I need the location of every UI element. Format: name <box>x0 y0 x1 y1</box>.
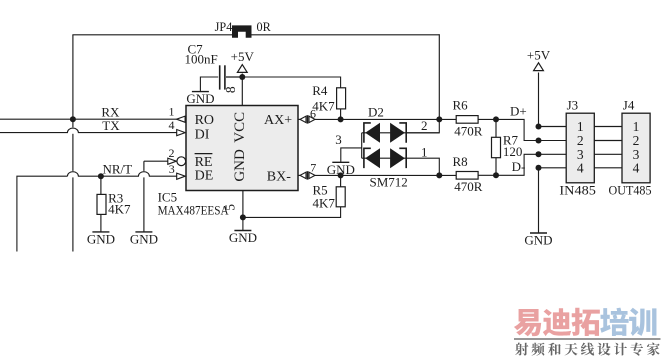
node R4 to AX+ junction <box>338 116 344 122</box>
svg-text:D2: D2 <box>368 105 384 120</box>
wire R5 top from BX- junction <box>340 175 342 186</box>
pin 3 DE arrow <box>169 162 185 179</box>
wire R5 bottom to IC ground net <box>243 207 341 218</box>
wire D2 row2 to BX- net (pin 1 of D2) <box>406 158 439 175</box>
diode array D2 SM712 <box>364 123 406 168</box>
svg-text:D-: D- <box>512 159 526 174</box>
svg-text:J4: J4 <box>623 97 635 112</box>
wire top rail left segment to JP4 <box>72 34 233 36</box>
svg-text:SM712: SM712 <box>370 175 408 190</box>
svg-text:BX-: BX- <box>267 170 291 185</box>
node R5 to BX- junction <box>338 172 344 178</box>
svg-text:TX: TX <box>102 118 120 133</box>
svg-text:1: 1 <box>169 105 175 119</box>
node +5V to J3 pin1 <box>536 124 542 130</box>
node GND to J3 pin4 <box>536 165 542 171</box>
ground for D2 pin 3 <box>327 162 355 177</box>
net label RX <box>101 104 120 119</box>
capacitor C7 100nF <box>185 42 225 90</box>
svg-text:GND: GND <box>186 91 214 106</box>
wire RE drop down to ground (crosses NR/T with hop) <box>143 161 145 171</box>
pin 8 VCC number (rotated) <box>223 86 238 93</box>
svg-text:GND: GND <box>327 162 355 177</box>
svg-text:J3: J3 <box>567 97 579 112</box>
ground for IC5 pin 5 <box>229 217 257 245</box>
wire R4 bottom to AX+ net <box>340 109 342 120</box>
svg-text:GND: GND <box>87 231 115 246</box>
resistor R8 body <box>456 172 478 180</box>
wire D- jog to J3 pin 3 <box>496 154 566 175</box>
pin 2 RE arrow and bubble <box>168 146 186 165</box>
wire NR/T left stub corner down to open end <box>17 176 68 251</box>
svg-text:3: 3 <box>169 162 175 176</box>
connector J4 OUT485 <box>609 97 652 197</box>
svg-text:100nF: 100nF <box>185 52 218 67</box>
svg-text:VCC: VCC <box>232 112 248 143</box>
resistor R7 body <box>492 137 501 157</box>
svg-text:R4: R4 <box>312 83 328 98</box>
svg-text:8: 8 <box>223 86 238 93</box>
svg-text:2: 2 <box>633 133 640 148</box>
pin 1 RO arrow <box>169 105 186 123</box>
wire D+ jog to J3 pin 2 <box>496 119 566 140</box>
node D2 row2 to BX- junction <box>436 172 442 178</box>
resistor R4 body <box>337 88 346 109</box>
wire R7 bottom connection <box>495 158 497 176</box>
label R7 120 <box>503 132 523 159</box>
svg-text:470R: 470R <box>454 124 483 139</box>
svg-text:2: 2 <box>421 118 428 133</box>
wire R7 top connection <box>495 119 497 137</box>
power +5V at J3 <box>527 47 551 70</box>
watermark logo yiditraining <box>514 308 661 356</box>
svg-text:1: 1 <box>633 119 640 134</box>
pin 5 GND number (rotated) <box>222 204 237 211</box>
net label NR/T <box>103 162 133 177</box>
svg-text:4: 4 <box>577 161 584 176</box>
wire J3 to J4 row 4 <box>594 167 622 169</box>
node D+ junction R6/R7 <box>493 116 499 122</box>
label IC5 <box>158 190 178 205</box>
node +5V / C7 / VCC junction <box>239 74 245 80</box>
wire vertical bus below RX junction down <box>72 119 74 127</box>
net label D+ <box>510 104 527 119</box>
label MAX487EESA <box>158 203 230 218</box>
resistor R5 body <box>336 187 345 207</box>
net label TX <box>102 118 120 133</box>
label D2 pin 2 <box>421 118 428 133</box>
wire vertical bus continues below NR/T to open end <box>72 177 74 251</box>
label SM712 <box>370 175 408 190</box>
svg-text:D+: D+ <box>510 104 527 119</box>
wire J3 pin 4 feed <box>539 167 567 169</box>
ground for R3 <box>87 231 115 246</box>
label D2 pin 1 <box>421 145 428 160</box>
wire TX from left edge to DI pin (hop over vertical bus) <box>0 128 177 133</box>
wire R3 top from NR/T junction <box>100 176 102 194</box>
wire J3 pin 1 feed <box>539 126 567 128</box>
svg-text:1: 1 <box>577 119 584 134</box>
wire IC GND pin 5 drop <box>242 191 244 218</box>
svg-text:3: 3 <box>335 132 342 147</box>
label D2 <box>368 105 384 120</box>
ground for C7 <box>186 91 214 106</box>
net label D- <box>512 159 526 174</box>
wire J3 to J4 row 2 <box>594 140 622 142</box>
wire J3 to J4 row 1 <box>594 126 622 128</box>
node D+ to J3 pin2 <box>536 138 542 144</box>
wire +5V node right to R4 top <box>242 77 340 88</box>
svg-text:GND: GND <box>524 233 552 248</box>
svg-text:R8: R8 <box>453 154 468 169</box>
wire D2 pin 3 stub to ground <box>341 148 362 162</box>
label R5 4K7 <box>313 183 336 211</box>
svg-text:RO: RO <box>195 113 214 128</box>
wire C7 right plate to +5V node <box>226 76 242 78</box>
svg-text:2: 2 <box>577 133 584 148</box>
svg-text:DI: DI <box>195 127 210 142</box>
node NR/T junction with R3 <box>98 173 104 179</box>
node IC ground pin junction <box>240 214 246 220</box>
wire R8 right to D- node <box>478 174 496 176</box>
ground for RE pin <box>130 231 158 246</box>
svg-text:AX+: AX+ <box>264 113 292 128</box>
wire J3 to J4 row 3 <box>594 153 622 155</box>
svg-text:JP4: JP4 <box>215 20 233 34</box>
svg-text:6: 6 <box>310 107 316 121</box>
svg-text:+5V: +5V <box>527 47 551 62</box>
connector J3 IN485 <box>559 97 596 197</box>
wire AX+ stub IC edge to arrow <box>298 118 300 120</box>
wire +5V right drop to J3 pin 1 <box>538 73 540 127</box>
svg-text:+5V: +5V <box>231 49 255 64</box>
svg-text:1: 1 <box>421 145 428 160</box>
wire NR/T from corner to DE pin (hops over bus and RE drop) <box>67 172 177 177</box>
label R4 4K7 <box>312 83 335 113</box>
svg-text:4K7: 4K7 <box>313 195 336 210</box>
pin 4 DI arrow <box>169 118 186 136</box>
svg-text:4K7: 4K7 <box>108 201 131 216</box>
svg-text:GND: GND <box>229 230 257 245</box>
wire C7 left plate to ground corner <box>200 77 218 92</box>
node RX junction with vertical bus <box>70 116 76 122</box>
label D2 pin 3 <box>335 132 342 147</box>
svg-text:120: 120 <box>503 144 523 159</box>
node D- junction R8/R7 <box>493 172 499 178</box>
wire R3 bottom to ground <box>100 214 102 232</box>
svg-text:DE: DE <box>195 168 214 183</box>
svg-text:GND: GND <box>130 231 158 246</box>
wire AX+ pin net from IC to R6 <box>315 118 456 120</box>
svg-text:OUT485: OUT485 <box>609 182 652 197</box>
wire D2 row1 centre line <box>362 132 440 134</box>
op-amp IC5 MAX487EESA body <box>186 106 298 191</box>
power +5V at IC VCC <box>231 49 255 72</box>
svg-text:0R: 0R <box>257 20 272 34</box>
wire top rail right segment from JP4 to right drop <box>252 34 440 36</box>
svg-text:NR/T: NR/T <box>103 162 133 177</box>
label R8 470R <box>453 154 483 194</box>
svg-text:IN485: IN485 <box>559 182 596 197</box>
ground right for J3 pin 4 <box>524 233 552 248</box>
wire RX from left edge to RO pin <box>0 118 177 120</box>
resistor R6 body <box>456 116 478 124</box>
wire +5V node down to VCC pin 8 <box>241 77 243 106</box>
pin 7 BX- arrow <box>300 160 316 179</box>
wire D2 row2 centre line <box>362 157 407 159</box>
svg-text:4: 4 <box>169 118 175 132</box>
svg-text:MAX487EESA: MAX487EESA <box>158 203 230 218</box>
svg-text:R6: R6 <box>453 97 469 112</box>
wire RE pin to corner <box>144 160 168 162</box>
wire right drop from top rail down to AX+ net <box>438 34 440 119</box>
wire R6 right to D+ node <box>478 118 496 120</box>
svg-text:5: 5 <box>222 204 237 211</box>
jumper JP4 (0R link) <box>215 20 272 38</box>
node D- to J3 pin3 <box>536 151 542 157</box>
wire RE drop lower part <box>143 177 145 232</box>
svg-text:4: 4 <box>633 161 640 176</box>
wire J3 pin 4 to ground drop <box>538 168 540 233</box>
node top-rail drop to AX+ junction <box>436 116 442 122</box>
wire BX- pin net from IC to R8 <box>315 174 456 176</box>
resistor R3 body <box>97 194 106 214</box>
svg-text:470R: 470R <box>454 179 483 194</box>
wire D2 common left vertical <box>361 133 363 158</box>
wire vertical bus between TX and NR/T hops <box>72 134 74 171</box>
label R6 470R <box>453 97 483 138</box>
wire BX- stub IC edge to arrow <box>298 174 300 176</box>
pin 6 AX+ arrow <box>300 107 316 124</box>
svg-text:GND: GND <box>232 149 248 182</box>
wire D2 row1 to AX+ net (pin 2 of D2) <box>406 119 439 132</box>
wire +5V stem at VCC <box>241 74 243 79</box>
svg-text:7: 7 <box>310 160 316 174</box>
label R3 4K7 <box>108 190 131 216</box>
svg-text:2: 2 <box>169 146 175 160</box>
wire top bus from RX junction up to top rail <box>72 35 74 119</box>
